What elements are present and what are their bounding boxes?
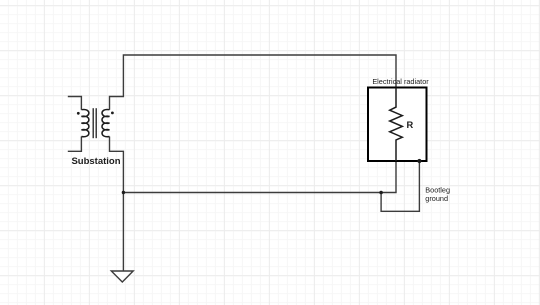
svg-text:R: R [407, 120, 414, 130]
svg-text:ground: ground [425, 194, 448, 203]
resistor R [390, 88, 403, 161]
node: neutral junction at transformer [122, 191, 125, 194]
transformer secondary winding [102, 109, 110, 136]
svg-text:Substation: Substation [71, 156, 120, 167]
ground [111, 271, 133, 282]
polarity dot secondary [111, 112, 114, 115]
wire: feeder from transformer secondary top to radiator [110, 55, 397, 110]
svg-text:Electrical radiator: Electrical radiator [372, 77, 429, 86]
wire: neutral horizontal run to resistor bottom [123, 161, 396, 193]
node: enclosure bond point [417, 159, 421, 163]
transformer primary winding [81, 109, 89, 136]
wire: transformer primary top stub [68, 97, 82, 110]
radiator enclosure box [368, 88, 427, 162]
wire: bootleg ground loop from enclosure to neutral [381, 161, 419, 211]
node: bootleg tap junction on neutral [379, 191, 383, 195]
wire: transformer primary bottom stub [68, 137, 82, 152]
polarity dot primary [77, 112, 80, 115]
wire: secondary bottom lead down to ground [110, 137, 124, 272]
transformer core [93, 108, 96, 138]
